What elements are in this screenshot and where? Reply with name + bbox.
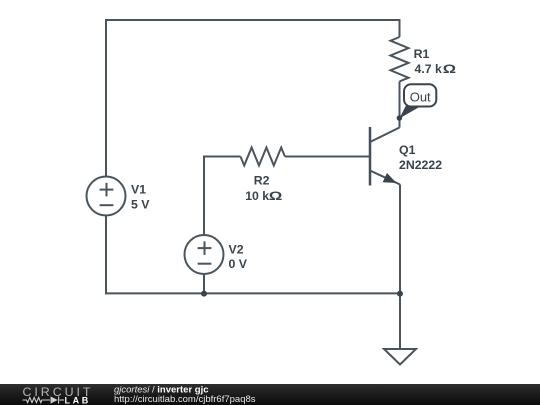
junction dot emitter/bottom rail [397, 291, 403, 297]
voltage source V2 [185, 235, 224, 274]
wire: left rail upper segment [105, 19, 107, 177]
svg-text:Q1: Q1 [399, 143, 416, 157]
svg-text:5 V: 5 V [131, 197, 150, 211]
wire: V2 bottom lead [203, 274, 205, 293]
svg-text:V1: V1 [131, 183, 146, 197]
wire: top rail down to R1 [399, 19, 401, 37]
svg-text:2N2222: 2N2222 [399, 158, 442, 172]
wire: R1 to Q1 collector [399, 81, 401, 127]
svg-text:4.7 k: 4.7 k [415, 62, 443, 76]
junction dot V2/bottom rail [201, 291, 207, 297]
transistor Q1 [370, 127, 400, 186]
resistor R1 [391, 37, 409, 81]
wire: R2 to Q1 base [285, 156, 369, 158]
svg-text:Ω: Ω [443, 63, 457, 76]
svg-text:Out: Out [410, 89, 431, 104]
svg-text:V2: V2 [229, 242, 244, 256]
junction dot Out node [397, 115, 403, 121]
svg-text:Ω: Ω [269, 190, 283, 203]
svg-text:R1: R1 [414, 47, 430, 61]
resistor R2 [241, 148, 285, 166]
wire: emitter down to ground [399, 185, 401, 350]
wire: bottom rail [105, 292, 400, 294]
svg-text:http://circuitlab.com/cjbfr6f7: http://circuitlab.com/cjbfr6f7paq8s [114, 394, 256, 405]
wire: V2 top lead and corner to R2 [204, 157, 241, 236]
ground symbol [384, 349, 416, 365]
wire: left rail lower segment [105, 216, 107, 295]
wire: top rail from V1 to R1 [106, 19, 400, 21]
logo resistor-diode glyph [23, 396, 65, 403]
svg-text:0 V: 0 V [229, 257, 248, 271]
svg-text:10 k: 10 k [245, 189, 269, 203]
node Out flag tail [399, 106, 420, 119]
voltage source V1 [87, 177, 126, 216]
node Out flag box [404, 84, 436, 106]
svg-text:LAB: LAB [65, 395, 91, 405]
svg-text:R2: R2 [254, 173, 270, 187]
